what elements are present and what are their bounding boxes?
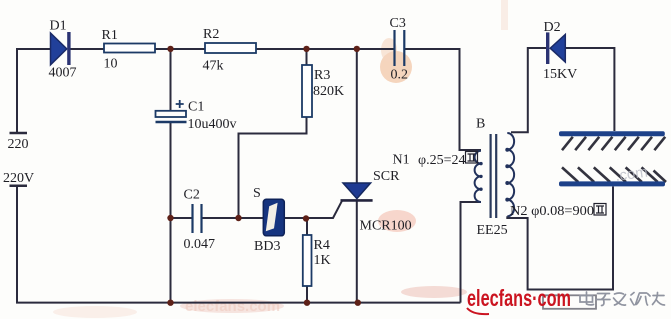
terminal 220 upper	[10, 132, 28, 135]
svg-text:220V: 220V	[3, 171, 34, 186]
node R3 top junction	[303, 46, 309, 52]
node S-R4-gate junction	[303, 215, 309, 221]
svg-text:N2 φ0.08=900: N2 φ0.08=900	[510, 204, 594, 219]
svg-text:R1: R1	[102, 28, 118, 43]
capacitor C1	[156, 100, 187, 122]
wire secondary bottom to bottom electrode	[507, 187, 613, 290]
svg-text:C3: C3	[390, 16, 406, 31]
smudge bottom left	[53, 306, 137, 318]
bottom electrode plate	[559, 181, 665, 186]
svg-text:0.2: 0.2	[391, 68, 409, 83]
smudge near C3	[380, 51, 412, 83]
svg-text:elecfans·com: elecfans·com	[467, 285, 571, 311]
wire D2 to top electrode	[565, 48, 614, 131]
node bottom rail SCR junction	[355, 300, 361, 306]
svg-text:0.047: 0.047	[184, 237, 216, 252]
svg-text:EE25: EE25	[477, 223, 508, 238]
wire left input bottom and bottom rail	[17, 187, 461, 303]
resistor R3	[302, 65, 312, 117]
svg-text:φ.25=24: φ.25=24	[418, 153, 465, 168]
wire primary bottom	[461, 202, 482, 303]
node bottom rail R4 junction	[304, 300, 310, 306]
node R1-R2-C1 junction	[167, 46, 173, 52]
svg-text:220: 220	[8, 137, 29, 152]
svg-text:15KV: 15KV	[543, 67, 577, 82]
watermark chinese dianzifashaoyou	[580, 292, 665, 306]
resistor R4	[303, 235, 312, 286]
svg-text:47k: 47k	[203, 59, 224, 74]
wire C1 branch lower	[170, 123, 172, 303]
svg-text:SCR: SCR	[373, 169, 400, 184]
svg-text:MCR100: MCR100	[360, 219, 412, 234]
resistor R1	[104, 44, 155, 53]
svg-text:10u400v: 10u400v	[188, 117, 237, 132]
svg-text:1K: 1K	[314, 253, 331, 268]
node bottom rail C1 junction	[167, 300, 173, 306]
wire R4 top	[306, 219, 308, 236]
wire gate row left of C2	[171, 217, 192, 219]
watermark gray box	[543, 295, 596, 309]
svg-text:C1: C1	[188, 100, 204, 115]
wire R4 bottom	[306, 286, 308, 303]
svg-text:S: S	[253, 186, 261, 201]
ghost text bottom rail	[180, 299, 284, 313]
svg-text:N1: N1	[393, 153, 410, 168]
wire SCR anode	[356, 49, 358, 183]
wire top rail R2 to C3	[256, 48, 394, 50]
terminal 220V lower	[10, 185, 28, 188]
wire R3 top	[306, 49, 308, 65]
transformer B primary winding N1	[475, 151, 481, 202]
primary winding cusp dots	[479, 162, 482, 191]
svg-text:R4: R4	[314, 238, 330, 253]
ghost text left of logo	[401, 286, 467, 298]
wire S to SCR gate	[284, 201, 342, 218]
capacitor C2	[193, 204, 202, 233]
bottom electrode hatching	[562, 167, 666, 182]
zha box symbol N2	[594, 204, 606, 216]
node C1-C2 gate row junction	[167, 215, 173, 221]
diode D1	[51, 32, 71, 65]
thyristor SCR	[341, 183, 373, 200]
svg-text:C2: C2	[184, 188, 200, 203]
svg-text:R2: R2	[203, 27, 219, 42]
svg-text:820K: 820K	[313, 84, 344, 99]
top electrode hatching	[562, 137, 665, 150]
svg-text:BD3: BD3	[254, 239, 280, 254]
svg-text:10: 10	[104, 57, 118, 72]
diode D2	[546, 32, 565, 64]
secondary winding cusp dots	[505, 148, 509, 202]
node R3 branch gate junction	[235, 215, 241, 221]
transformer secondary winding N2	[507, 133, 514, 216]
node SCR anode junction	[354, 46, 360, 52]
svg-text:elecfans.com: elecfans.com	[185, 298, 280, 315]
svg-text:D1: D1	[50, 19, 67, 34]
wire secondary top to D2	[511, 48, 546, 132]
capacitor C3	[395, 30, 405, 66]
wire left input top	[16, 48, 18, 133]
resistor R2	[205, 43, 256, 53]
wire top rail D1 to R1	[70, 48, 104, 50]
wire gate row C2 to S	[203, 217, 264, 219]
trigger diode S BD3	[263, 199, 284, 236]
wire top rail	[17, 48, 50, 50]
transformer core	[491, 134, 497, 218]
svg-text:D2: D2	[544, 20, 561, 35]
wire C1 branch upper	[170, 49, 172, 111]
svg-text:B: B	[476, 117, 485, 132]
wire C3 to transformer primary top	[405, 49, 481, 150]
wire top rail R1 to R2	[155, 48, 205, 50]
smudge behind MCR100	[378, 210, 416, 232]
top electrode plate	[559, 131, 665, 136]
svg-text:4007: 4007	[49, 66, 77, 81]
wire R3 branch vertical	[239, 117, 307, 218]
zha box symbol N1	[466, 152, 478, 164]
wire SCR cathode	[356, 200, 358, 303]
watermark red swoosh	[467, 308, 489, 314]
svg-text:R3: R3	[314, 68, 330, 83]
